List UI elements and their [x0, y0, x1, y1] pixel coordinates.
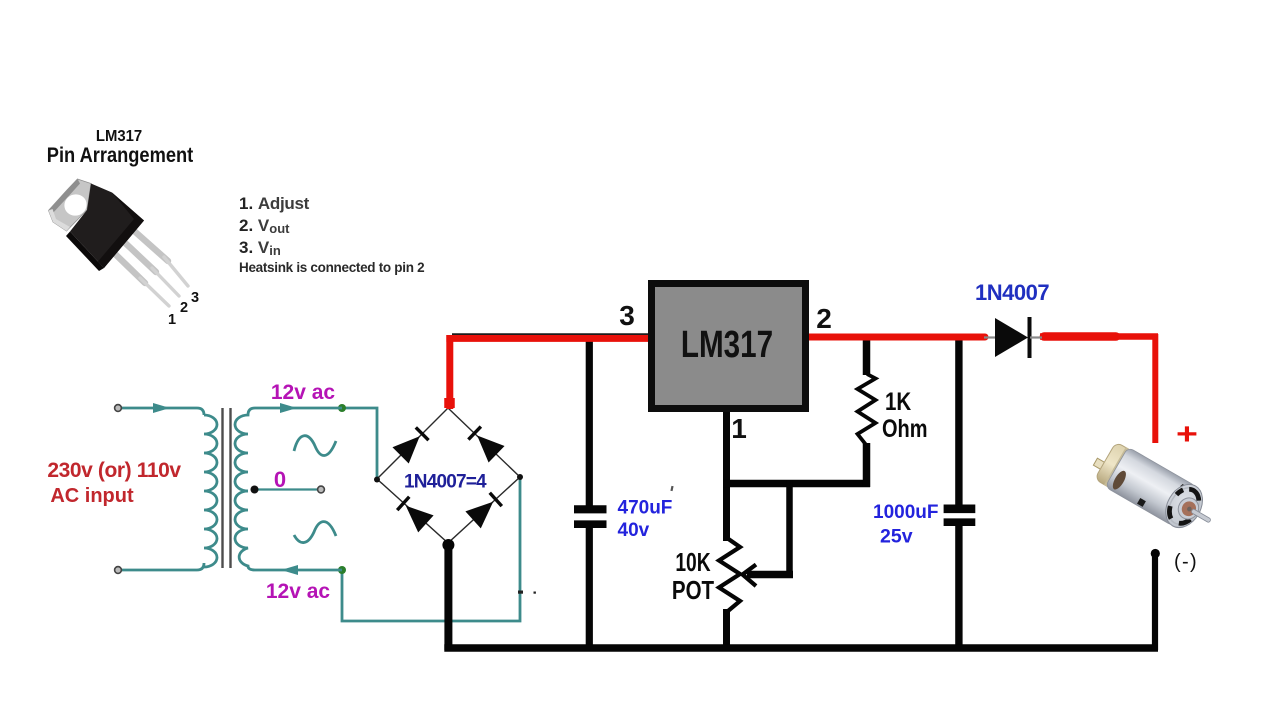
svg-text:10K: 10K [675, 547, 711, 577]
svg-text:40v: 40v [618, 520, 650, 541]
wire pin1 adj vertical [723, 410, 730, 541]
motor body speck [1180, 484, 1186, 490]
resistor 1K zigzag [858, 374, 876, 446]
svg-text:1. Adjust: 1. Adjust [239, 194, 310, 213]
wire bottom ground rail [444, 644, 1158, 651]
package pins [110, 229, 188, 306]
node bridge bottom [442, 539, 454, 551]
primary winding coil [204, 415, 217, 567]
diode D4 bottom-right [465, 491, 503, 529]
secondary winding coil upper [235, 408, 342, 491]
capacitor C2 plates [944, 504, 976, 513]
wire pot bottom [723, 609, 730, 648]
pot wiper arrow [743, 565, 757, 587]
wire red bridge top vertical [446, 335, 453, 409]
svg-text:1N4007=4: 1N4007=4 [404, 472, 487, 493]
wire bridge minus vertical [444, 545, 452, 650]
bridge diamond outline [377, 408, 520, 543]
transformer core lines [223, 408, 231, 568]
svg-text:2: 2 [180, 300, 188, 316]
svg-text:Heatsink is connected to pin 2: Heatsink is connected to pin 2 [239, 260, 424, 275]
motor vent holes [1187, 488, 1202, 500]
svg-text:0: 0 [274, 467, 286, 492]
wire 1000uF bottom branch [955, 526, 962, 648]
motor back cap joint [1104, 447, 1129, 487]
svg-text:LM317: LM317 [96, 128, 142, 146]
wire red LM317 pin2 to diode [806, 334, 985, 341]
diode D1 top-left [392, 426, 430, 464]
node motor negative terminal dot [1151, 549, 1160, 558]
svg-text:2: 2 [816, 303, 832, 334]
svg-text:3: 3 [191, 290, 199, 306]
secondary winding coil lower [235, 491, 342, 570]
package black body [70, 184, 144, 269]
svg-text:470uF: 470uF [618, 498, 673, 519]
op-amp U1 LM317 body [652, 284, 806, 409]
wire motor negative lead [1152, 553, 1158, 650]
motor hub [1174, 494, 1202, 523]
diode lead left [984, 336, 996, 338]
terminal primary top [115, 405, 122, 412]
node center tap dot [251, 486, 259, 494]
node bridge left [374, 477, 380, 483]
motor body opening [1110, 469, 1128, 492]
svg-text:1000uF: 1000uF [873, 502, 938, 523]
wire 470uF top branch [586, 338, 593, 506]
motor body notch [1137, 498, 1146, 507]
arrow primary top [153, 403, 170, 413]
wire primary bottom lead [120, 563, 204, 570]
svg-text:1: 1 [731, 413, 747, 444]
svg-text:230v (or) 110v: 230v (or) 110v [47, 459, 181, 482]
svg-text:12v ac: 12v ac [266, 580, 331, 603]
motor terminal tab [1093, 458, 1106, 470]
stray dots artifact [670, 486, 673, 491]
wire red diode to corner [1040, 333, 1158, 340]
node green junction bottom [338, 566, 346, 574]
motor shaft [1191, 509, 1211, 523]
wire wiper horizontal [747, 571, 793, 579]
arrow secondary top [280, 403, 297, 413]
motor face [1158, 478, 1210, 534]
resistor pot zigzag [719, 538, 740, 611]
diode lead right [1030, 336, 1042, 338]
sine symbol upper [294, 436, 336, 456]
wire 1K bottom [863, 443, 871, 487]
svg-text:25v: 25v [880, 526, 913, 548]
svg-text:AC input: AC input [50, 485, 134, 507]
wire red to LM317 pin3 [446, 335, 652, 342]
svg-text:+: + [1176, 417, 1198, 451]
svg-text:POT: POT [672, 576, 715, 605]
sine symbol lower [294, 522, 336, 543]
wire red motor positive drop [1152, 334, 1158, 443]
svg-text:12v ac: 12v ac [271, 381, 336, 404]
diode triangle [995, 318, 1028, 357]
package metal tab [49, 179, 92, 231]
svg-text:1N4007: 1N4007 [975, 280, 1049, 305]
wire 470uF bottom branch [586, 528, 593, 649]
motor body [1105, 447, 1196, 526]
wire bottom secondary to bridge right node [342, 477, 520, 621]
svg-text:1K: 1K [885, 387, 912, 415]
wire top secondary to bridge left node [342, 408, 377, 480]
package tab hole [61, 191, 90, 219]
svg-text:(-): (-) [1174, 551, 1198, 573]
wire wiper vertical [786, 480, 793, 575]
wire thin dark top edge of red rail [452, 333, 650, 335]
diode D2 top-right [467, 425, 505, 463]
wire primary top lead [120, 408, 204, 415]
wire red overlay thicker [1044, 332, 1116, 341]
svg-text:Ohm: Ohm [882, 415, 928, 443]
capacitor C1 plates [574, 505, 607, 513]
diode D3 bottom-left [396, 495, 434, 533]
diode cathode bar [1028, 317, 1032, 358]
wire 1K top [863, 340, 871, 375]
terminal primary bottom [115, 567, 122, 574]
wire center tap [254, 488, 318, 490]
svg-text:LM317: LM317 [681, 324, 773, 366]
motor back cap [1095, 442, 1137, 491]
wire adj horizontal [723, 480, 870, 488]
wire 1000uF top branch [955, 338, 962, 505]
terminal center tap [318, 486, 325, 493]
svg-text:Pin Arrangement: Pin Arrangement [47, 144, 194, 167]
node bridge right [517, 474, 523, 480]
svg-text:1: 1 [168, 312, 176, 328]
node green junction top [338, 404, 346, 412]
svg-text:3: 3 [619, 300, 635, 331]
arrow secondary bottom (points left) [281, 565, 298, 575]
